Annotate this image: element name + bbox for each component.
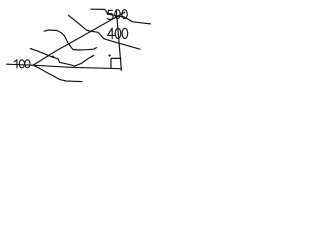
- label 500: second 0: [122, 10, 127, 19]
- blue dot on contour 200 / slope crossing: [52, 56, 54, 58]
- label 100: second 0: [25, 60, 30, 68]
- right angle square at C: [111, 58, 121, 68]
- background: [0, 0, 166, 94]
- label 500: first 0: [115, 10, 120, 19]
- vertical line B-C: [116, 10, 121, 71]
- base line A-C: [33, 65, 121, 69]
- contour 500 line: [91, 9, 151, 24]
- label 400: second 0: [122, 28, 128, 38]
- contour 100 line through label to A then down-right: [7, 64, 83, 81]
- contour 200 line: [30, 49, 94, 67]
- label 100: digit 1: [14, 60, 17, 68]
- label 400: digit 4: [108, 28, 115, 38]
- blue dot above right-angle square: [109, 54, 111, 56]
- contour 400 line: [69, 15, 141, 49]
- blue dot near 500 contour bend: [107, 13, 109, 15]
- contour 300 line: [44, 30, 96, 50]
- label 400: first 0: [115, 28, 121, 38]
- label 100: first 0: [19, 60, 24, 68]
- slope line A-B: [33, 12, 125, 65]
- label 500: digit 5: [107, 10, 113, 19]
